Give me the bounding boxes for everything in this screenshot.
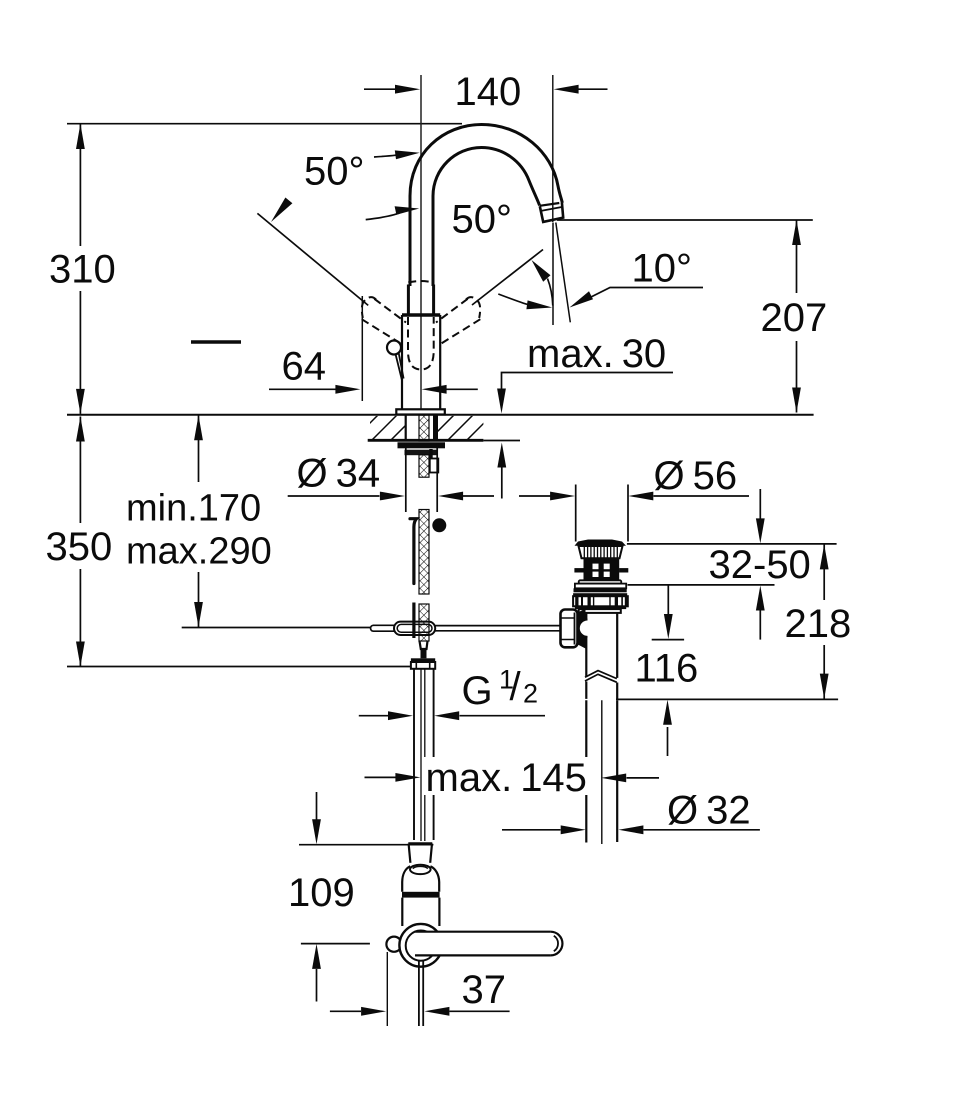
svg-text:max. 145: max. 145 [426,756,587,800]
svg-text:50°: 50° [452,198,513,242]
svg-text:218: 218 [785,602,852,646]
svg-text:Ø 34: Ø 34 [297,452,381,496]
svg-text:32-50: 32-50 [709,543,811,587]
svg-text:10°: 10° [632,247,693,291]
svg-text:50°: 50° [304,150,365,194]
svg-text:max. 30: max. 30 [527,332,666,376]
svg-text:Ø 32: Ø 32 [667,789,751,833]
svg-text:2: 2 [523,679,538,709]
svg-text:350: 350 [46,525,113,569]
svg-text:G: G [462,669,493,713]
svg-text:109: 109 [288,871,355,915]
svg-text:310: 310 [49,248,116,292]
svg-text:/: / [510,665,522,709]
svg-text:64: 64 [282,345,327,389]
svg-text:140: 140 [455,70,522,114]
svg-text:116: 116 [635,647,699,691]
svg-text:37: 37 [462,968,507,1012]
svg-text:207: 207 [761,296,828,340]
svg-text:Ø 56: Ø 56 [654,454,738,498]
svg-text:min.170: min.170 [126,488,261,530]
svg-text:max.290: max.290 [126,531,272,573]
